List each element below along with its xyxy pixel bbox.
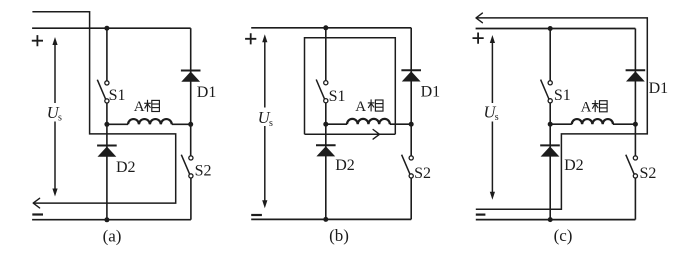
wire S2 to bottom rail (c) <box>634 178 636 220</box>
current path loop (b) <box>305 38 396 135</box>
label xiang (phase) character (b) <box>368 99 383 111</box>
voltage arrow Us (b) line <box>264 38 266 108</box>
inductor phase-A winding (a) <box>128 119 172 124</box>
wire S1 branch upper (a) <box>106 28 108 81</box>
svg-text:D1: D1 <box>649 80 669 97</box>
diode D2 (b) triangle <box>316 146 335 156</box>
wire node A to winding (c) <box>550 123 572 125</box>
svg-text:A: A <box>581 100 592 116</box>
svg-text:s: s <box>269 118 273 129</box>
svg-text:(b): (b) <box>329 226 349 245</box>
minus terminal (a) <box>32 213 43 215</box>
switch S1 (a) contact circles <box>105 81 109 85</box>
voltage arrow Us (a) down arrowhead <box>52 189 57 197</box>
panel (b) converter: freewheel mode <box>245 25 440 245</box>
junction dot node A (b) <box>323 122 328 127</box>
svg-text:D2: D2 <box>335 157 355 174</box>
diode D2 (c) triangle <box>541 146 560 156</box>
switch S2 (a) blade <box>181 155 189 174</box>
diode D2 (b) cathode bar <box>316 144 336 146</box>
switch S2 (b) blade <box>402 155 410 174</box>
switch S2 (a) contact circles <box>189 156 193 160</box>
wire D2 branch (c) <box>549 124 551 219</box>
wire bottom negative rail (a) <box>32 219 191 221</box>
svg-text:S2: S2 <box>195 163 212 180</box>
svg-text:A: A <box>355 99 366 115</box>
plus terminal (c) <box>473 33 484 44</box>
voltage arrow Us (a) line <box>54 41 56 104</box>
junction dot D2 bottom rail (b) <box>323 217 328 222</box>
voltage arrow Us (c) down arrowhead <box>490 192 495 200</box>
wire S1 to node A (a) <box>106 103 108 124</box>
wire D1 branch (c) <box>634 29 636 156</box>
wire S1 branch upper (c) <box>549 29 551 81</box>
current path loop bottom (b) <box>305 133 396 135</box>
current path loop (c) <box>476 18 648 209</box>
junction dot node B (c) <box>633 122 638 127</box>
wire S2 to bottom rail (a) <box>190 178 192 220</box>
panel (a) converter: excitation mode <box>32 12 217 246</box>
current-path arrowhead (a) <box>33 198 39 208</box>
switch S1 (c) blade <box>541 80 549 99</box>
wire top positive rail (b) <box>251 27 411 29</box>
plus terminal (a) <box>32 35 43 46</box>
diode D1 (a) cathode bar <box>181 70 201 72</box>
svg-text:S1: S1 <box>554 87 571 104</box>
voltage arrow Us (c) up arrowhead <box>490 35 495 43</box>
switch S2 (c) blade <box>626 155 634 174</box>
voltage arrow Us (a) up arrowhead <box>52 37 57 45</box>
junction dot D2 bottom rail (c) <box>548 217 553 222</box>
wire D2 branch (b) <box>325 124 327 219</box>
diode D1 (b) cathode bar <box>401 69 421 71</box>
wire bottom negative rail (b) <box>251 218 411 220</box>
wire D1 branch (a) <box>190 28 192 156</box>
diode D2 (a) triangle <box>98 147 117 157</box>
wire top positive rail (c) <box>476 28 636 30</box>
voltage arrow Us (c) line <box>491 39 493 104</box>
switch S1 (b) blade <box>316 80 324 99</box>
current-path arrowhead (c) <box>476 13 482 23</box>
junction dot S1 top rail (b) <box>323 25 328 30</box>
wire D2 branch (a) <box>106 124 108 219</box>
switch S1 (a) blade <box>97 80 105 99</box>
panel (c) converter: regeneration mode <box>473 13 669 245</box>
wire winding to node B (a) <box>172 123 191 125</box>
diode D1 (a) triangle <box>181 72 200 82</box>
diode D2 (c) cathode bar <box>540 144 560 146</box>
svg-text:(a): (a) <box>103 226 122 245</box>
current-path arrowhead (b) <box>373 130 379 140</box>
switch S2 (b) contact circles <box>409 156 413 160</box>
junction dot node B (b) <box>409 122 414 127</box>
wire winding to node B (b) <box>390 123 411 125</box>
svg-text:S1: S1 <box>329 88 346 105</box>
svg-text:S2: S2 <box>414 165 431 182</box>
svg-text:A: A <box>134 99 145 115</box>
svg-text:D1: D1 <box>197 84 217 101</box>
wire winding to node B (c) <box>613 123 635 125</box>
wire node A to winding (a) <box>107 123 128 125</box>
svg-text:D2: D2 <box>116 159 136 176</box>
diode D1 (b) triangle <box>402 71 421 81</box>
inductor phase-A winding (c) <box>572 119 613 124</box>
minus terminal (b) <box>251 214 262 216</box>
junction dot node B (a) <box>188 122 193 127</box>
current path loop (a) <box>32 12 175 203</box>
junction dot node A (a) <box>104 122 109 127</box>
minus terminal (c) <box>476 214 486 216</box>
junction dot S1 top rail (c) <box>548 26 553 31</box>
label xiang (phase) character (c) <box>592 100 607 112</box>
inductor phase-A winding (b) <box>347 119 390 124</box>
wire S2 to bottom rail (b) <box>410 178 412 220</box>
svg-text:S2: S2 <box>640 165 657 182</box>
wire S1 branch upper (b) <box>325 28 327 81</box>
switch S1 (b) contact circles <box>324 81 328 85</box>
svg-text:s: s <box>495 112 499 123</box>
wire S1 to node A (c) <box>549 103 551 124</box>
svg-text:S1: S1 <box>109 87 126 104</box>
junction dot node A (c) <box>548 122 553 127</box>
switch S1 (c) contact circles <box>548 81 552 85</box>
wire top positive rail (a) <box>32 27 191 29</box>
svg-text:(c): (c) <box>554 226 573 245</box>
wire bottom negative rail (c) <box>476 219 636 221</box>
voltage arrow Us (b) down arrowhead <box>262 200 267 208</box>
voltage arrow Us (b) up arrowhead <box>262 34 267 42</box>
plus terminal (b) <box>245 33 256 44</box>
diode D1 (c) triangle <box>626 71 645 81</box>
svg-text:s: s <box>58 113 62 124</box>
junction dot S1 top rail (a) <box>104 26 109 31</box>
label xiang (phase) character (a) <box>144 100 159 112</box>
diode D1 (c) cathode bar <box>626 69 646 71</box>
svg-text:D1: D1 <box>421 83 441 100</box>
junction dot D2 bottom rail (a) <box>104 217 109 222</box>
svg-text:D2: D2 <box>564 157 584 174</box>
wire D1 branch (b) <box>410 28 412 156</box>
wire S1 to node A (b) <box>325 103 327 124</box>
switch S2 (c) contact circles <box>633 156 637 160</box>
wire node A to winding (b) <box>326 123 347 125</box>
diode D2 (a) cathode bar <box>97 145 117 147</box>
